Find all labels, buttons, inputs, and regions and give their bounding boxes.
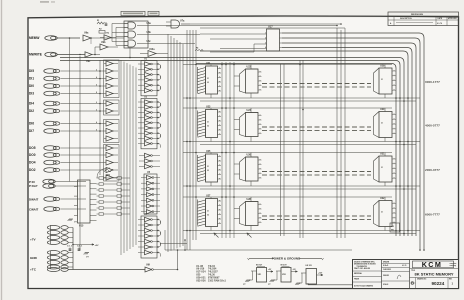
buffer U10a — [148, 51, 156, 57]
driver package U13 box — [104, 120, 120, 143]
memory chip U37 3D body — [246, 202, 259, 226]
ground VR1 — [249, 271, 253, 280]
wire to title block — [308, 284, 353, 286]
svg-text:21: 21 — [207, 122, 209, 124]
inverter — [145, 110, 151, 114]
svg-text:2000-3777: 2000-3777 — [425, 168, 440, 172]
inverter — [145, 78, 151, 82]
inverter — [145, 105, 151, 109]
NAND gate U6a — [128, 22, 136, 29]
right bus nested corners — [282, 33, 424, 250]
memory chip right 3D body — [379, 68, 392, 94]
wire U9a junction drop — [90, 38, 92, 44]
mid chip left wires — [234, 163, 240, 165]
chip top stubs — [210, 197, 212, 199]
vertical from MEMW node — [69, 38, 71, 182]
svg-text:U9c: U9c — [86, 60, 91, 63]
svg-text:DWAIT: DWAIT — [29, 197, 39, 201]
buffer triangle — [106, 175, 113, 180]
svg-text:DI1: DI1 — [29, 77, 34, 81]
row4 extra select box — [390, 223, 400, 232]
svg-text:6: 6 — [96, 129, 97, 131]
svg-text:6000-7777: 6000-7777 — [425, 213, 440, 217]
ground VR3 — [299, 273, 302, 283]
row bottom wire 2 — [200, 144, 416, 146]
svg-text:R4: R4 — [196, 47, 198, 50]
memory chip U21 hatched address fan — [197, 67, 199, 93]
memory chip right 3D body — [379, 156, 392, 182]
svg-text:VR2: VR2 — [282, 274, 286, 276]
zone stamp boxes on top border — [121, 11, 145, 15]
IC U15 DIP body — [78, 180, 91, 223]
svg-text:02: 02 — [207, 126, 209, 128]
gate U7a — [171, 20, 180, 28]
svg-text:U32-U36: U32-U36 — [196, 279, 206, 282]
svg-text:POWER & GROUND: POWER & GROUND — [272, 257, 301, 261]
margin smudge top left — [40, 1, 49, 3]
svg-text:+7V: +7V — [30, 237, 37, 241]
chip top stubs — [210, 65, 212, 67]
memory chip U23 body — [206, 110, 218, 138]
vertical bus between buffers and arrays — [120, 60, 122, 255]
junction dots — [221, 64, 223, 66]
svg-text:DESCRIPTION: DESCRIPTION — [400, 18, 412, 20]
inverter — [145, 115, 151, 119]
buffer U9c — [85, 52, 92, 58]
svg-text:UNLESS OTHERWISE SPEC.: UNLESS OTHERWISE SPEC. — [354, 261, 376, 263]
inverter — [145, 141, 151, 145]
buffer U7b — [104, 35, 111, 41]
svg-text:DO5: DO5 — [29, 146, 36, 150]
svg-text:SEL: SEL — [391, 230, 394, 232]
memory chip U25 hatched address fan — [197, 155, 199, 181]
dashed expansion wires — [262, 126, 371, 128]
memory chip U25 body — [206, 154, 218, 182]
svg-text:21: 21 — [381, 167, 383, 169]
ground below capacitors — [85, 252, 89, 254]
inverter — [147, 175, 153, 179]
svg-text:/77: /77 — [243, 284, 246, 286]
svg-text:U10a: U10a — [149, 49, 155, 51]
svg-text:R1: R1 — [97, 20, 99, 22]
resistor R1 and capacitor C3 top — [97, 22, 105, 24]
wire gate outputs right — [148, 25, 337, 27]
IC U17 DIP body — [267, 29, 280, 51]
chip bottom stubs — [210, 94, 212, 98]
row top wire — [183, 152, 392, 154]
vertical bus mid-left — [79, 56, 81, 250]
svg-text:DI4: DI4 — [29, 102, 34, 106]
svg-text:6-1-76: 6-1-76 — [437, 23, 442, 25]
revision table — [388, 12, 459, 26]
chip bottom stubs — [210, 182, 212, 186]
svg-text:U6c: U6c — [147, 41, 152, 43]
memory chip U27 body — [206, 199, 218, 227]
jumper matrix address select — [97, 177, 100, 179]
svg-text:company: company — [450, 265, 457, 267]
memory chip right 3D body — [379, 112, 392, 138]
NAND gate U6b — [128, 31, 136, 38]
inverter — [145, 136, 151, 140]
svg-text:/77: /77 — [268, 284, 271, 286]
svg-text:21: 21 — [207, 211, 209, 213]
row bottom wire 2 — [200, 233, 416, 235]
svg-text:4000-5777: 4000-5777 — [425, 124, 440, 128]
svg-text:CHECKED: CHECKED — [383, 269, 392, 271]
chip top stubs — [210, 153, 212, 155]
inverter — [145, 88, 151, 92]
svg-text:JP1: JP1 — [106, 175, 111, 177]
inverter — [145, 223, 151, 227]
wire +TC to U9f — [68, 269, 145, 271]
title block frame — [353, 260, 459, 289]
row top wire — [183, 64, 392, 66]
small parts cluster R2 — [99, 31, 105, 34]
bottom rail vertical — [184, 240, 186, 250]
dashed expansion wires — [262, 83, 371, 85]
svg-text:U7a: U7a — [180, 19, 185, 22]
inverter — [147, 181, 153, 185]
buffer triangle — [106, 83, 113, 88]
driver package U12 box — [104, 100, 120, 115]
memory chip right 3D body — [379, 201, 392, 227]
svg-text:6: 6 — [96, 84, 97, 86]
svg-text:CWAIT: CWAIT — [29, 207, 39, 211]
inverter — [147, 204, 153, 208]
row top wire — [183, 196, 392, 198]
buffer triangle — [106, 91, 113, 96]
buffer triangle — [106, 160, 113, 165]
buffer triangle — [106, 121, 113, 126]
inverter — [145, 217, 151, 221]
gate box U6 — [124, 21, 148, 48]
inverter — [145, 83, 151, 87]
wire left of row4 bottom — [160, 243, 187, 245]
svg-text:REVISIONS: REVISIONS — [411, 14, 423, 16]
svg-text:S.McD: S.McD — [383, 265, 389, 267]
inverter — [145, 121, 151, 125]
inverter — [145, 245, 151, 249]
bottom long wire — [165, 249, 352, 251]
wire elbow above U15 — [97, 168, 110, 178]
row bottom wire — [183, 141, 420, 143]
svg-text:P DLP: P DLP — [29, 184, 38, 188]
loose inverters U3 — [145, 153, 151, 157]
resistor R4 — [195, 49, 203, 51]
svg-text:DI3: DI3 — [29, 92, 34, 96]
buffer triangle — [106, 68, 113, 73]
inverter — [145, 67, 151, 71]
power bus vertical — [72, 228, 74, 270]
svg-text:DI0: DI0 — [29, 84, 34, 88]
memory chip U33 3D body — [246, 113, 259, 137]
svg-text:U7b: U7b — [105, 33, 110, 35]
svg-text:8: 8 — [96, 92, 97, 94]
buffer triangle — [106, 145, 113, 150]
memory chip U35 3D body — [246, 157, 259, 181]
svg-text:FINISH: FINISH — [354, 279, 360, 281]
svg-text:6-1-76: 6-1-76 — [402, 265, 407, 267]
svg-text:02: 02 — [207, 170, 209, 172]
row bottom wire 2 — [200, 100, 416, 102]
svg-text:MEMW: MEMW — [29, 36, 39, 40]
row top wire — [183, 107, 392, 109]
inverter — [145, 250, 151, 254]
inverter — [145, 131, 151, 135]
svg-text:ISSUED: ISSUED — [383, 275, 390, 277]
svg-text:DO4: DO4 — [29, 161, 36, 165]
svg-text:21: 21 — [381, 79, 383, 81]
buffer triangle — [106, 136, 113, 141]
buffer triangle — [106, 76, 113, 81]
svg-text:0: 0 — [96, 102, 97, 104]
svg-text:MWRITE: MWRITE — [29, 53, 42, 57]
dashed expansion wires — [262, 171, 371, 173]
memory chip U21 body — [206, 66, 218, 94]
diagonal arrow marks below row4 chips — [214, 233, 219, 238]
svg-text:21: 21 — [207, 78, 209, 80]
inverter array U5 box (P IN region) — [144, 174, 157, 214]
inverter — [145, 100, 151, 104]
inverter array U4 box — [141, 216, 157, 258]
svg-text:DO2: DO2 — [29, 168, 36, 172]
memory chip U27 hatched address fan — [197, 200, 199, 226]
svg-text:U9b: U9b — [101, 41, 106, 44]
mid chip left wires — [234, 119, 240, 121]
svg-text:GND: GND — [30, 256, 38, 260]
svg-text:VR1: VR1 — [258, 274, 262, 276]
chip bottom stubs — [210, 227, 212, 231]
buffer triangle — [106, 108, 113, 113]
wire U6 box to lower bus — [129, 48, 131, 58]
svg-text:02: 02 — [207, 82, 209, 84]
inverter — [145, 239, 151, 243]
buffer triangle — [106, 152, 113, 157]
row bottom wire — [183, 97, 420, 99]
inverter — [147, 187, 153, 191]
mid chip left wires — [234, 75, 240, 77]
svg-text:C1 .1: C1 .1 — [67, 246, 73, 248]
vertical bus right of arrays — [167, 34, 169, 252]
inverter — [147, 198, 153, 202]
svg-text:LM 323: LM 323 — [306, 265, 312, 267]
vertical wires mid right — [280, 64, 282, 236]
svg-text:DI5: DI5 — [29, 69, 34, 73]
svg-text:21: 21 — [381, 123, 383, 125]
wires from U17 left — [200, 33, 263, 35]
svg-text:U6b: U6b — [147, 32, 152, 34]
buffer triangle — [106, 101, 113, 106]
svg-text:2: 2 — [96, 69, 97, 71]
buffer U9b — [100, 44, 108, 50]
svg-text:+TC: +TC — [30, 268, 37, 272]
memory chip U23 hatched address fan — [197, 111, 199, 137]
dashed expansion wires — [262, 215, 371, 217]
pin number ticks — [219, 67, 220, 70]
svg-text:U6a: U6a — [147, 23, 152, 25]
buffer triangle — [106, 61, 113, 66]
driver package U14 box — [104, 145, 120, 182]
svg-text:+5V: +5V — [95, 245, 99, 247]
inverter — [145, 72, 151, 76]
row bottom wire — [183, 185, 420, 187]
NAND gate U6c — [128, 40, 136, 47]
svg-text:0000-1777: 0000-1777 — [425, 80, 440, 84]
buffer U9a — [83, 35, 91, 41]
ground mark above power cluster — [69, 218, 73, 220]
svg-text:2102 RAM 1Kx1: 2102 RAM 1Kx1 — [208, 279, 226, 282]
chip bottom stubs — [210, 138, 212, 142]
inverter — [145, 126, 151, 130]
mid chip left wires — [234, 208, 240, 210]
inverter — [147, 193, 153, 197]
inverter — [145, 228, 151, 232]
inverter — [147, 210, 153, 214]
buffer triangle — [106, 128, 113, 133]
svg-text:U9f: U9f — [146, 263, 150, 266]
svg-text:90224: 90224 — [432, 281, 445, 286]
svg-text:8K STATIC MEMORY: 8K STATIC MEMORY — [414, 272, 453, 277]
buffer triangle — [106, 167, 113, 172]
svg-text:21: 21 — [207, 166, 209, 168]
inverter U9f — [145, 267, 152, 272]
svg-text:DO0: DO0 — [29, 153, 36, 157]
inverter — [145, 62, 151, 66]
svg-text:DI7: DI7 — [29, 129, 34, 133]
row bottom wire 2 — [200, 188, 416, 190]
svg-text:02: 02 — [207, 215, 209, 217]
inverter array U1 box — [141, 61, 157, 96]
svg-text:21: 21 — [381, 212, 383, 214]
wire top bus elbow — [200, 28, 345, 32]
driver package U11 box — [104, 60, 120, 98]
memory chip U31 3D body — [246, 69, 259, 93]
svg-text:U9a: U9a — [84, 32, 89, 35]
ground VR2 — [274, 271, 278, 280]
svg-text:U17: U17 — [268, 25, 273, 28]
vertical bus center — [186, 30, 188, 240]
svg-text:DI2: DI2 — [29, 109, 34, 113]
inverter — [145, 234, 151, 238]
chip top stubs — [210, 108, 212, 110]
svg-text:DI6: DI6 — [29, 122, 34, 126]
svg-text:2: 2 — [96, 109, 97, 111]
inverter array U2 box — [141, 99, 157, 149]
vertical wires at chips left — [221, 62, 223, 238]
row bottom wire — [183, 230, 420, 232]
gate box U6 input wires — [112, 23, 128, 25]
